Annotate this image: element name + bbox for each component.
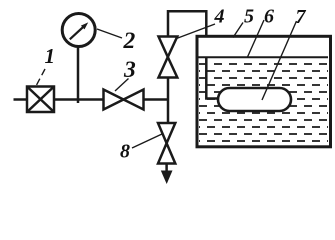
wire: gauge stem [77, 46, 80, 103]
outlet arrow head [161, 171, 173, 185]
svg-text:5: 5 [244, 6, 254, 28]
svg-text:2: 2 [123, 28, 136, 54]
valve 8 (vertical bowtie, drain) [158, 123, 175, 164]
liquid 6: hatching dashes [199, 64, 328, 141]
leader line to label 6 [248, 20, 265, 57]
leader line to label 3 [115, 79, 129, 92]
valve 4 (vertical bowtie) [159, 37, 178, 78]
leader line to label 1 [36, 69, 45, 86]
svg-text:3: 3 [123, 57, 136, 83]
wire: outlet stem below valve 8 [165, 164, 168, 174]
svg-text:7: 7 [296, 6, 307, 28]
wire: top pipe from riser over to tank and down to capsule [168, 11, 217, 98]
wire: inlet stub at left [14, 98, 28, 101]
wire: riser between valve 4 and valve 8 (through junction) [167, 77, 170, 124]
leader line to label 2 [97, 29, 122, 38]
svg-text:1: 1 [45, 44, 56, 68]
svg-text:6: 6 [264, 6, 274, 28]
leader line to label 5 [233, 23, 243, 38]
leader line to label 7 [262, 21, 297, 100]
svg-text:8: 8 [120, 141, 130, 163]
pressure gauge 2 [62, 14, 95, 47]
leader line to label 8 [132, 134, 162, 148]
wire: pipe stub into capsule (redrawn over liquid) [206, 57, 217, 99]
capsule 7 (sample vessel in bath) [218, 88, 291, 111]
fitting 1: square with X (inlet connection) [27, 87, 54, 113]
wire: pipe from valve 3 to riser junction [144, 98, 170, 101]
svg-text:4: 4 [214, 6, 225, 28]
valve 3 (horizontal bowtie) [104, 90, 144, 110]
liquid surface (level line) [199, 56, 329, 58]
leader line to label 4 [177, 24, 216, 39]
wire: pipe from square to valve 3 [54, 98, 104, 101]
tank 5 (thermostat bath walls) [197, 36, 331, 147]
